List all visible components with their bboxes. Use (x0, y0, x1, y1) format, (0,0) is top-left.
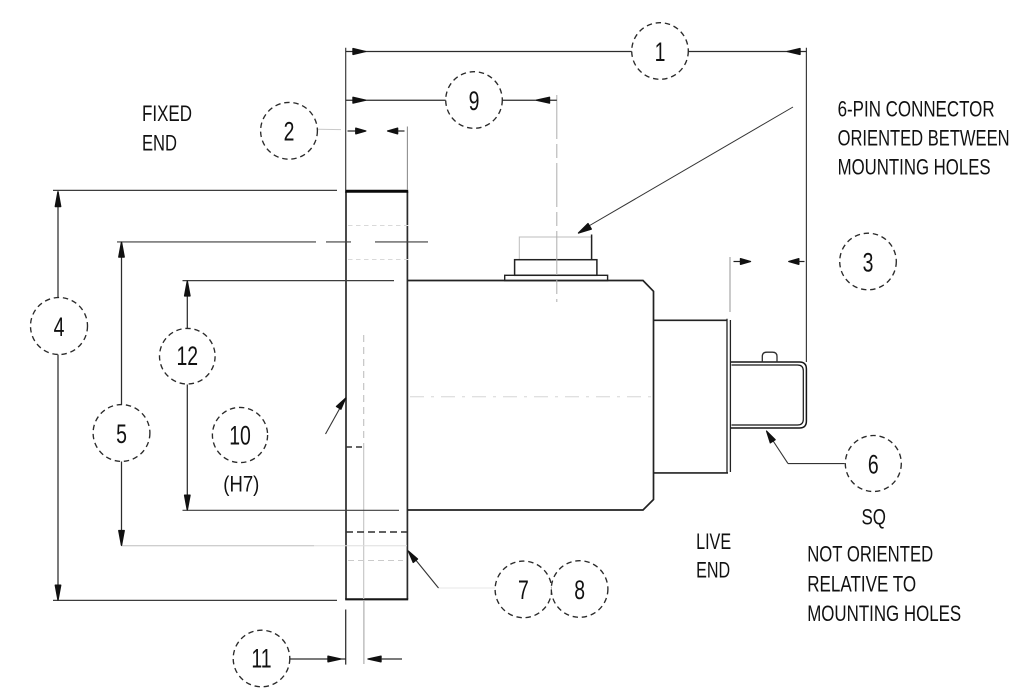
dim 11 left arrowhead (328, 656, 341, 662)
svg-text:NOT ORIENTED: NOT ORIENTED (807, 542, 933, 567)
balloon 7 leader (439, 587, 496, 589)
svg-text:ORIENTED BETWEEN: ORIENTED BETWEEN (838, 126, 1010, 151)
balloon 6 (845, 436, 901, 492)
svg-text:8: 8 (574, 575, 585, 605)
body outline (407, 281, 653, 511)
end disc (727, 319, 730, 473)
dim line 12 (186, 282, 188, 510)
svg-text:11: 11 (251, 643, 271, 673)
dim 5 bottom extension / hole centerline (121, 545, 314, 547)
dim 9 right arrowhead (537, 97, 550, 103)
svg-text:MOUNTING HOLES: MOUNTING HOLES (807, 601, 961, 626)
svg-text:LIVE: LIVE (696, 529, 731, 554)
balloon 2 leader (318, 128, 341, 130)
flange bottom hole hidden lines (346, 531, 407, 533)
connector leader arrowhead (579, 224, 592, 233)
dim 1 / dim 3 right extension (805, 48, 807, 362)
connector base plate (505, 275, 608, 280)
dim 12 bottom extension (183, 509, 400, 511)
dim 1 left extension (345, 48, 347, 190)
connector centerline / dim 9 extension (556, 95, 558, 302)
flange plate (345, 191, 408, 599)
balloon 2 (261, 102, 318, 159)
dim 4 bottom extension (53, 599, 337, 601)
connector leader line (585, 107, 794, 229)
svg-text:MOUNTING HOLES: MOUNTING HOLES (838, 155, 991, 180)
svg-text:FIXED: FIXED (142, 101, 192, 126)
svg-text:SQ: SQ (862, 505, 887, 530)
body centerline (410, 396, 652, 398)
dim 9 left arrowhead (353, 97, 366, 103)
svg-text:10: 10 (229, 420, 251, 450)
svg-text:1: 1 (655, 37, 666, 67)
dim 5 bottom arrowhead (119, 531, 124, 546)
balloon 6 leader (772, 439, 845, 464)
svg-text:4: 4 (54, 312, 65, 342)
svg-text:3: 3 (863, 247, 874, 277)
shaft boss (654, 320, 729, 473)
svg-text:9: 9 (469, 86, 480, 116)
connector shell (519, 237, 591, 260)
balloon 10 leader arrowhead (336, 398, 345, 409)
FIXED END label (142, 101, 192, 156)
balloon 9 (446, 72, 503, 129)
dim 11 leader (290, 658, 328, 660)
svg-text:2: 2 (284, 116, 295, 146)
dim 12 bottom arrowhead (185, 495, 190, 510)
not oriented note (807, 542, 961, 627)
dim 11 right arrowhead (368, 656, 381, 662)
dim line 9 (346, 99, 557, 101)
dim line 1 (346, 51, 807, 53)
dim 2 right extension (406, 127, 408, 191)
balloon 3 (840, 233, 897, 290)
dim 4 bottom arrowhead (55, 585, 60, 600)
set screw bump (762, 352, 777, 362)
dim 1 left arrowhead (353, 49, 366, 55)
balloon 5 (93, 405, 150, 462)
flange bore hidden line (363, 335, 365, 664)
dim 1 right arrowhead (787, 49, 800, 55)
square drive block (731, 362, 806, 428)
balloon 12 (160, 328, 216, 384)
balloon 8 (551, 561, 608, 618)
svg-text:END: END (142, 131, 177, 156)
svg-text:7: 7 (518, 575, 529, 605)
balloon 7 leader arrowhead (408, 551, 417, 563)
6-pin connector note (838, 97, 1010, 180)
svg-text:5: 5 (116, 419, 127, 449)
dim 3 arrows (734, 259, 805, 265)
dim 11 left extension (345, 610, 347, 665)
dim 3 left extension (729, 257, 731, 312)
svg-text:RELATIVE TO: RELATIVE TO (807, 571, 916, 596)
dim 12 top extension (183, 280, 395, 282)
dim line 4 (57, 192, 59, 600)
flange counterbore hidden line (346, 446, 364, 448)
svg-text:6-PIN CONNECTOR: 6-PIN CONNECTOR (838, 97, 995, 122)
svg-text:(H7): (H7) (223, 472, 259, 497)
LIVE END label (696, 529, 731, 583)
balloon 7 (495, 561, 552, 618)
flange top mounting hole hidden lines (348, 226, 411, 260)
balloon 6 leader arrowhead (767, 431, 776, 443)
dim 4 top extension (53, 189, 337, 191)
dim 5 top extension / hole centerline (117, 241, 428, 243)
balloon 4 (31, 298, 88, 355)
balloon 1 (632, 23, 689, 80)
balloon 10 leader (326, 404, 343, 435)
svg-text:12: 12 (176, 341, 198, 371)
dim 4 top arrowhead (55, 192, 60, 207)
dim 5 top arrowhead (119, 242, 124, 257)
connector block (515, 260, 597, 276)
balloon 11 (233, 630, 290, 687)
svg-text:END: END (696, 558, 730, 583)
balloon 10 (212, 407, 267, 462)
dim line 5 (121, 243, 123, 545)
dim 12 top arrowhead (185, 281, 190, 296)
dim 2 arrows (348, 128, 405, 134)
svg-text:6: 6 (868, 449, 879, 479)
